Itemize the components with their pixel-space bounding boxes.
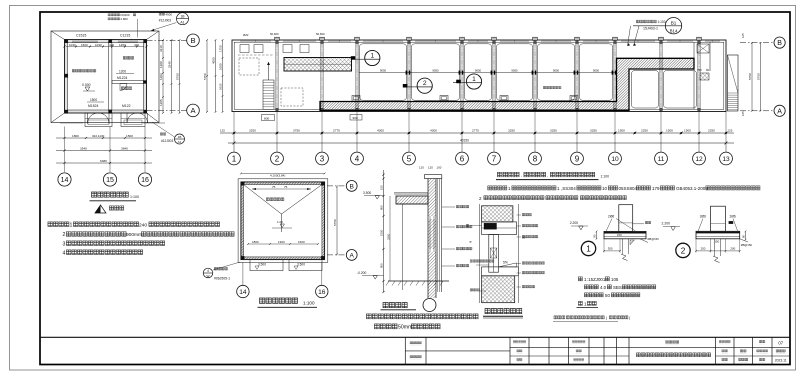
- svg-text:9050: 9050: [511, 69, 518, 73]
- svg-text:3250: 3250: [590, 129, 597, 133]
- svg-text:750: 750: [697, 68, 702, 72]
- svg-text:05SS804: 05SS804: [619, 186, 638, 191]
- svg-text:4.0: 4.0: [600, 285, 607, 290]
- svg-text:GB4053.1-2009: GB4053.1-2009: [676, 186, 708, 191]
- svg-text:3.500: 3.500: [363, 191, 371, 195]
- svg-text:-0.200: -0.200: [357, 271, 367, 275]
- svg-text:5750: 5750: [748, 73, 752, 80]
- svg-text:125: 125: [741, 111, 745, 116]
- svg-text:1: 1: [586, 245, 591, 254]
- svg-text:120: 120: [419, 166, 424, 170]
- svg-text:120: 120: [428, 166, 433, 170]
- svg-text:900: 900: [380, 205, 384, 210]
- svg-text:07: 07: [778, 341, 783, 346]
- svg-text:2Ø6: 2Ø6: [730, 215, 736, 219]
- svg-text:1800: 1800: [252, 240, 259, 244]
- svg-text:5%: 5%: [503, 261, 508, 265]
- svg-text:10: 10: [611, 156, 619, 163]
- svg-text:1000: 1000: [219, 63, 223, 70]
- svg-text:9050: 9050: [553, 69, 560, 73]
- svg-text:4,100(3,84): 4,100(3,84): [270, 174, 285, 178]
- svg-text:2.200: 2.200: [570, 221, 579, 225]
- svg-text:B: B: [349, 183, 354, 190]
- svg-text:9050: 9050: [475, 69, 482, 73]
- svg-text:9: 9: [575, 154, 580, 163]
- svg-text:1:100: 1:100: [601, 175, 610, 179]
- svg-text:14: 14: [239, 289, 247, 296]
- svg-text:2.200: 2.200: [662, 221, 671, 225]
- svg-text:1B: 1B: [180, 14, 185, 18]
- svg-text:C1215: C1215: [120, 34, 130, 38]
- svg-text:·: ·: [521, 174, 523, 179]
- svg-text:8: 8: [533, 154, 538, 163]
- svg-text:200: 200: [701, 247, 706, 251]
- svg-text:900: 900: [353, 116, 358, 120]
- svg-text:A1: A1: [180, 20, 184, 24]
- svg-text:#06J505-1: #06J505-1: [214, 277, 230, 281]
- svg-text:3: 3: [63, 241, 66, 247]
- svg-text:2.800: 2.800: [121, 17, 129, 21]
- svg-text:A: A: [349, 252, 354, 259]
- svg-text:600: 600: [706, 68, 711, 72]
- svg-text:3250: 3250: [550, 129, 557, 133]
- svg-text:40150: 40150: [460, 139, 469, 143]
- svg-text:1:100: 1:100: [658, 20, 666, 24]
- svg-text:2Ø6: 2Ø6: [608, 215, 614, 219]
- svg-text:11: 11: [658, 156, 665, 163]
- svg-text:75: 75: [272, 185, 276, 189]
- svg-text:1.00: 1.00: [277, 220, 283, 224]
- svg-text:50,600: 50,600: [316, 32, 325, 36]
- svg-text:150: 150: [617, 233, 622, 237]
- svg-text:3250: 3250: [249, 129, 256, 133]
- svg-text:150: 150: [715, 240, 720, 244]
- svg-text:1203: 1203: [159, 73, 163, 80]
- svg-text:800: 800: [264, 116, 269, 120]
- svg-text:1:100: 1:100: [303, 301, 315, 306]
- svg-text:2250: 2250: [641, 129, 648, 133]
- svg-text:6380: 6380: [100, 159, 107, 163]
- svg-text:5750: 5750: [176, 73, 180, 80]
- svg-text:2625: 2625: [219, 83, 223, 90]
- svg-text:4: 4: [63, 250, 66, 256]
- svg-text:300: 300: [608, 247, 613, 251]
- svg-text:1200: 1200: [119, 70, 126, 74]
- svg-text:4300: 4300: [430, 129, 437, 133]
- svg-text:M1524: M1524: [88, 104, 98, 108]
- svg-text:3250: 3250: [508, 129, 515, 133]
- svg-text:2: 2: [423, 80, 427, 87]
- svg-text:1500: 1500: [380, 229, 384, 236]
- svg-text:3540: 3540: [80, 147, 87, 151]
- svg-text:5: 5: [407, 154, 412, 163]
- svg-text:50: 50: [605, 293, 610, 298]
- svg-text:1500: 1500: [684, 129, 691, 133]
- svg-text:B: B: [190, 36, 195, 45]
- svg-text:M122: M122: [122, 104, 131, 108]
- svg-text:1500: 1500: [298, 240, 305, 244]
- svg-text:1: 1: [370, 52, 374, 59]
- svg-text:C1515: C1515: [76, 34, 86, 38]
- svg-text:16: 16: [318, 289, 326, 296]
- svg-text:0.000: 0.000: [82, 83, 91, 87]
- svg-text:5750: 5750: [757, 73, 761, 80]
- svg-text:2775: 2775: [333, 129, 340, 133]
- svg-text:50mm: 50mm: [398, 325, 412, 331]
- svg-text:1200: 1200: [159, 61, 163, 68]
- svg-text:M1224: M1224: [117, 76, 127, 80]
- svg-text:#12J003: #12J003: [159, 19, 171, 23]
- svg-text:1300: 1300: [278, 240, 285, 244]
- svg-text:3210: 3210: [159, 45, 163, 52]
- svg-text:·: ·: [547, 174, 549, 179]
- svg-text:1500: 1500: [666, 129, 673, 133]
- svg-text:7: 7: [492, 154, 497, 163]
- svg-text:1500: 1500: [618, 129, 625, 133]
- svg-text:1205: 1205: [159, 99, 163, 106]
- svg-text:30: 30: [522, 236, 526, 240]
- svg-text:125: 125: [728, 129, 733, 133]
- svg-text:322,1130: 322,1130: [92, 134, 105, 138]
- svg-text:2540: 2540: [168, 61, 172, 68]
- svg-text:10: 10: [602, 186, 608, 191]
- svg-text:16: 16: [141, 177, 149, 184]
- svg-text:900: 900: [380, 263, 384, 268]
- svg-text:1750: 1750: [219, 45, 223, 52]
- svg-text:1: 1: [472, 76, 476, 83]
- svg-text:9050: 9050: [593, 69, 600, 73]
- svg-text:#M2: #M2: [243, 33, 249, 37]
- svg-text:50,600: 50,600: [270, 32, 279, 36]
- svg-text:5750: 5750: [333, 219, 337, 226]
- svg-text:B1: B1: [671, 20, 677, 25]
- svg-text:2: 2: [63, 232, 66, 238]
- svg-text:13: 13: [722, 156, 730, 163]
- svg-text:,SS304: ,SS304: [561, 186, 576, 191]
- svg-text:1500: 1500: [90, 98, 97, 102]
- svg-text:5750: 5750: [203, 73, 207, 80]
- svg-text:Ø8@150: Ø8@150: [741, 243, 753, 247]
- svg-text:125: 125: [741, 33, 745, 38]
- svg-text:200: 200: [730, 247, 735, 251]
- svg-text:A1: A1: [178, 140, 182, 144]
- svg-text:105: 105: [611, 277, 619, 282]
- svg-text:M: M: [469, 241, 473, 243]
- svg-text:15: 15: [106, 177, 114, 184]
- svg-text:W: W: [206, 274, 209, 278]
- svg-text:420: 420: [134, 43, 139, 47]
- svg-text:#12J003: #12J003: [161, 139, 173, 143]
- svg-text:9050: 9050: [432, 69, 439, 73]
- svg-text:3840: 3840: [121, 147, 128, 151]
- svg-text:9050: 9050: [380, 69, 387, 73]
- svg-text:1: 1: [70, 222, 73, 228]
- svg-text:150: 150: [380, 185, 384, 190]
- svg-text:1800: 1800: [72, 134, 79, 138]
- svg-text:B14: B14: [670, 28, 678, 33]
- svg-text:15J403-1: 15J403-1: [643, 27, 658, 31]
- svg-text:1B: 1B: [178, 135, 182, 139]
- svg-text:4300: 4300: [377, 129, 384, 133]
- svg-text:125: 125: [220, 129, 225, 133]
- svg-text:1030: 1030: [69, 43, 76, 47]
- svg-text:2023.11: 2023.11: [775, 358, 787, 362]
- svg-text:1:100: 1:100: [130, 195, 139, 199]
- svg-text:240: 240: [139, 222, 147, 228]
- svg-text:4000: 4000: [212, 57, 216, 64]
- svg-text:B: B: [777, 40, 782, 47]
- svg-text:2: 2: [681, 246, 686, 255]
- svg-text:2: 2: [275, 154, 280, 163]
- svg-text:1: 1: [232, 154, 237, 163]
- svg-text:420: 420: [109, 43, 114, 47]
- svg-text:14: 14: [61, 177, 69, 184]
- svg-text:1500: 1500: [81, 43, 88, 47]
- svg-text:75: 75: [284, 185, 288, 189]
- svg-text:4: 4: [355, 154, 360, 163]
- svg-text:SBS: SBS: [613, 285, 622, 290]
- svg-text:2Ø6: 2Ø6: [700, 215, 706, 219]
- svg-text:6: 6: [460, 154, 465, 163]
- svg-text:1500: 1500: [126, 134, 133, 138]
- svg-text:3: 3: [320, 154, 325, 163]
- svg-text:4: 4: [207, 269, 209, 273]
- svg-text:2250: 2250: [708, 129, 715, 133]
- svg-text::15ZJ001: :15ZJ001: [587, 277, 606, 282]
- svg-text:A: A: [777, 108, 782, 115]
- svg-text:Ø8@150: Ø8@150: [648, 237, 660, 241]
- svg-text:): ): [629, 316, 630, 320]
- svg-text:12: 12: [695, 156, 703, 163]
- svg-text:2775: 2775: [472, 129, 479, 133]
- svg-text:100: 100: [437, 166, 442, 170]
- svg-text:1030: 1030: [95, 43, 102, 47]
- svg-text:179: 179: [652, 186, 660, 191]
- svg-text:4900: 4900: [166, 12, 173, 16]
- svg-text:3750: 3750: [293, 129, 300, 133]
- svg-text:900mm: 900mm: [126, 232, 142, 238]
